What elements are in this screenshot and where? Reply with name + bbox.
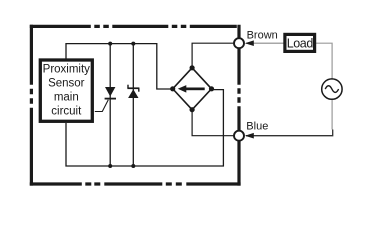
thyristor Q1 (SCR) [95, 87, 116, 112]
current direction arrow inside bridge [178, 85, 205, 93]
bridge vertex junction dots [170, 65, 214, 112]
arrowhead into brown terminal [245, 40, 254, 46]
arrowhead into blue terminal [245, 133, 254, 139]
blue terminal circle [234, 131, 244, 141]
sensor enclosure dashed outline (phantom line) [30, 25, 241, 186]
svg-text:circuit: circuit [51, 106, 82, 118]
diode bridge (diamond) [173, 68, 212, 110]
zener diode ZD1 [127, 85, 139, 98]
svg-text:Sensor: Sensor [48, 78, 85, 90]
svg-text:Brown: Brown [247, 29, 278, 41]
junction dots on rails [108, 42, 135, 168]
wire: SCR branch [109, 44, 111, 166]
svg-text:Load: Load [287, 36, 314, 50]
wire: zener branch [132, 44, 134, 166]
wire: box bottom to negative rail [66, 90, 223, 166]
wire: load to AC source [315, 43, 333, 78]
wire: AC source to blue lead [331, 100, 333, 130]
svg-text:Proximity: Proximity [43, 63, 91, 75]
svg-text:main: main [54, 92, 79, 104]
AC source [322, 79, 342, 99]
wire: brown lead from load [246, 42, 285, 44]
svg-text:Blue: Blue [246, 120, 268, 132]
wire: bridge top vertex to brown terminal [192, 43, 233, 68]
brown terminal circle [234, 38, 244, 48]
proximity sensor main circuit box [40, 60, 92, 121]
load box [285, 34, 315, 51]
wire: internal positive top rail [66, 44, 173, 89]
wire: bridge bottom vertex to blue terminal [192, 110, 234, 136]
gate wire from main circuit to SCR [95, 100, 109, 112]
